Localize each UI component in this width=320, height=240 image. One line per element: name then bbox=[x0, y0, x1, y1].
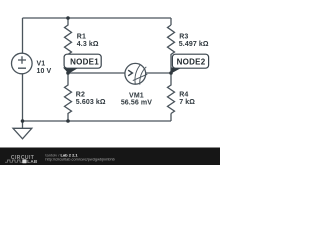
footer bar bbox=[0, 148, 220, 166]
wire voltmeter left bbox=[68, 72, 125, 74]
junction dot node1 bbox=[66, 71, 70, 75]
svg-text:7 kΩ: 7 kΩ bbox=[179, 99, 195, 106]
svg-text:R1: R1 bbox=[77, 34, 86, 41]
resistor R1 bbox=[65, 18, 99, 73]
footer logo waveform bbox=[5, 160, 23, 162]
wire right vertical upper lead bbox=[170, 18, 172, 25]
resistor R3 bbox=[168, 25, 209, 73]
wire top horizontal bbox=[23, 17, 172, 19]
svg-text:4.3 kΩ: 4.3 kΩ bbox=[77, 41, 99, 48]
ground bbox=[13, 121, 32, 139]
footer logo block bbox=[22, 159, 26, 163]
svg-text:R4: R4 bbox=[179, 92, 188, 99]
svg-text:5.603 kΩ: 5.603 kΩ bbox=[76, 99, 106, 106]
svg-text:5.497 kΩ: 5.497 kΩ bbox=[179, 41, 209, 48]
resistor R2 bbox=[65, 73, 106, 121]
node NODE1 flag bbox=[63, 54, 101, 73]
svg-text:http://circuitlab.com/cwc/pw3g: http://circuitlab.com/cwc/pw3gwbjnmbhb bbox=[45, 157, 114, 162]
svg-text:R3: R3 bbox=[179, 34, 188, 41]
svg-text:NODE2: NODE2 bbox=[177, 57, 206, 66]
resistor R4 bbox=[168, 73, 196, 113]
svg-text:R2: R2 bbox=[76, 92, 85, 99]
voltage source V1 bbox=[11, 53, 51, 75]
junction dot node2 bbox=[169, 71, 173, 75]
voltmeter VM1 bbox=[121, 63, 152, 106]
wire left vertical lower bbox=[22, 74, 24, 121]
wire bottom horizontal bbox=[23, 120, 172, 122]
svg-text:56.56 mV: 56.56 mV bbox=[121, 99, 152, 106]
svg-text:V1: V1 bbox=[37, 60, 46, 67]
junction dot bottom mid bbox=[66, 119, 70, 123]
svg-text:NODE1: NODE1 bbox=[70, 57, 99, 66]
wire voltmeter right bbox=[146, 72, 171, 74]
node NODE2 flag bbox=[171, 54, 209, 73]
wire left vertical upper bbox=[22, 18, 24, 53]
wire right vertical lower lead bbox=[170, 114, 172, 122]
svg-text:LAB: LAB bbox=[27, 159, 38, 164]
svg-text:10 V: 10 V bbox=[37, 68, 52, 75]
junction dot top bbox=[66, 16, 70, 20]
junction dot bottom left bbox=[21, 119, 25, 123]
